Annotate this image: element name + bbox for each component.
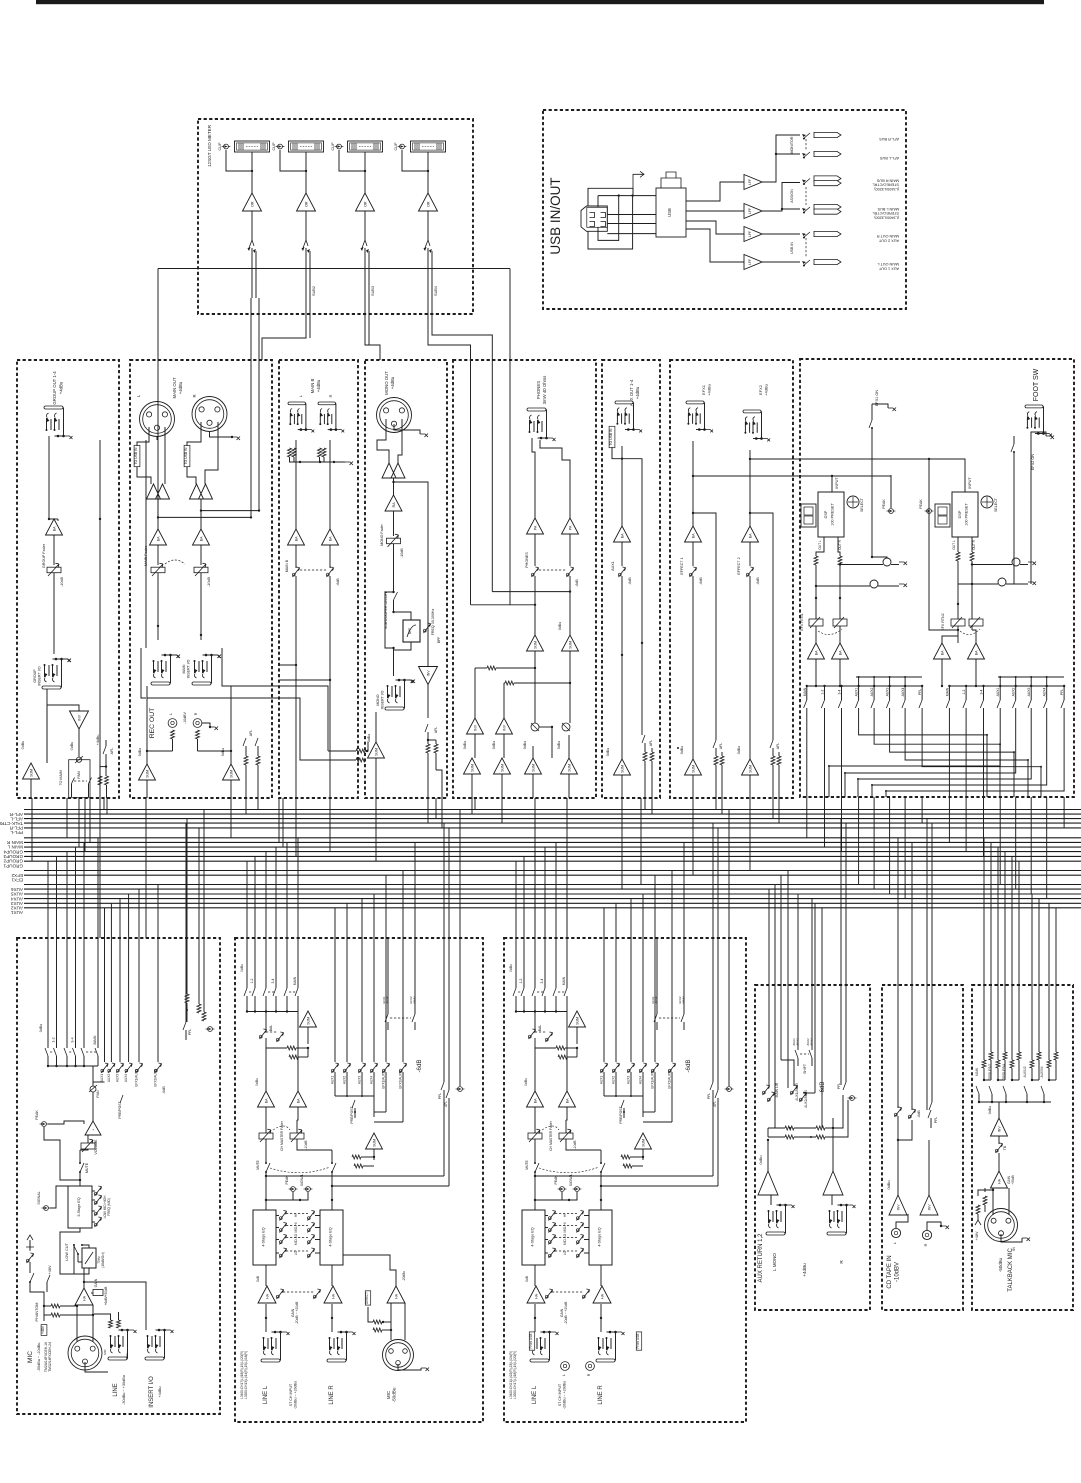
svg-text:GROUP OUT 1-4: GROUP OUT 1-4 — [52, 371, 57, 405]
svg-text:SUM: SUM — [306, 1017, 310, 1025]
svg-text:AUX 2 OUT: AUX 2 OUT — [878, 238, 899, 242]
svg-text:FOOT SW: FOOT SW — [1033, 368, 1040, 401]
svg-text:OR: OR — [304, 201, 308, 207]
svg-text:0dBu: 0dBu — [509, 964, 513, 972]
wire main bus crossover — [201, 510, 259, 512]
resistor sum feed 1 — [556, 1046, 565, 1050]
svg-text:LPF: LPF — [748, 208, 752, 214]
switch SUBWOOFER ON/OFF — [393, 544, 395, 592]
svg-text:PHONES: PHONES — [525, 552, 529, 568]
filter 75Hz HPF — [82, 1248, 96, 1268]
connector AUX OUT jack — [615, 401, 633, 404]
encoder SELECT dsp1 — [847, 496, 859, 508]
svg-text:+48V: +48V — [41, 1325, 45, 1334]
op-amp SUM phones bottom 1 — [464, 758, 481, 774]
svg-text:AUX4: AUX4 — [901, 687, 905, 696]
svg-text:AUX2: AUX2 — [11, 906, 23, 911]
svg-text:INV: INV — [473, 724, 477, 731]
svg-text:PFL-L: PFL-L — [10, 830, 23, 835]
svg-text:100 PRESET: 100 PRESET — [964, 503, 968, 526]
svg-text:MAIN: MAIN — [975, 1067, 979, 1076]
svg-text:SUM: SUM — [531, 764, 535, 772]
svg-text:LPF: LPF — [748, 231, 752, 237]
switch assign AFL-R — [803, 133, 810, 139]
svg-text:AUX3: AUX3 — [116, 1074, 120, 1083]
connector RCA CD L — [891, 1228, 900, 1237]
svg-text:1-2: 1-2 — [250, 978, 254, 983]
svg-text:(18dB/Oct): (18dB/Oct) — [101, 1252, 105, 1267]
terminal MAIN R — [814, 176, 841, 181]
svg-text:0dBu: 0dBu — [240, 964, 244, 972]
svg-text:EFX2/AUX6: EFX2/AUX6 — [154, 1069, 158, 1086]
svg-text:EFX1: EFX1 — [701, 384, 706, 395]
wire efx2 send into dsp2 — [800, 458, 929, 460]
svg-text:MID-HI: MID-HI — [294, 1222, 298, 1232]
op-amp aux return L — [758, 1171, 778, 1195]
connector MAIN INSERT I/O jack L — [151, 682, 170, 685]
wire driver to BA — [393, 478, 395, 495]
bus line AUX2 — [24, 902, 1081, 904]
resistor mono feed 1 — [356, 749, 365, 753]
svg-text:MONITOR: MONITOR — [790, 136, 794, 153]
svg-text:FREQ (MID): FREQ (MID) — [107, 1198, 111, 1216]
svg-text:CLIP: CLIP — [394, 142, 398, 151]
svg-text:TO USB IN: TO USB IN — [609, 428, 613, 445]
filter BPF block — [403, 620, 420, 642]
connector MAIN B jack L — [288, 402, 305, 405]
svg-text:HA: HA — [265, 1293, 269, 1299]
svg-text:LINE: LINE — [125, 1353, 129, 1360]
svg-text:EFX RTN2: EFX RTN2 — [941, 613, 945, 630]
svg-text:-6dB: -6dB — [575, 579, 579, 587]
CLIP LED 2 — [278, 144, 283, 149]
svg-text:USB IN: USB IN — [790, 242, 794, 254]
svg-text:BA: BA — [691, 533, 695, 538]
svg-text:AFL: AFL — [649, 740, 653, 746]
wire efx1 send into dsp1 — [800, 475, 832, 477]
svg-text:BAL: BAL — [269, 1025, 273, 1032]
wire main b feed R — [279, 679, 330, 681]
svg-text:BA: BA — [294, 536, 298, 541]
op-amp HA stereo R — [593, 1286, 611, 1303]
svg-text:+4dBu: +4dBu — [178, 381, 183, 394]
svg-text:INSERT I/O: INSERT I/O — [381, 690, 385, 709]
svg-text:BA: BA — [620, 533, 624, 538]
switch matrix EFX RTN1 assign — [807, 685, 922, 687]
wire bpf out — [394, 642, 412, 650]
equalizer 3-Stage EQ — [68, 1186, 92, 1228]
svg-text:LINE L: LINE L — [532, 1385, 538, 1404]
svg-text:CH MASTER Fader: CH MASTER Fader — [549, 1120, 553, 1151]
svg-text:SUM: SUM — [533, 641, 537, 649]
op-amp RA MONO — [385, 495, 402, 511]
svg-text:BA: BA — [264, 1098, 268, 1103]
svg-text:INV: INV — [426, 670, 430, 677]
svg-text:SUM: SUM — [500, 764, 504, 772]
svg-text:AUX3: AUX3 — [1027, 687, 1031, 696]
switch assign MAIN R — [803, 179, 810, 185]
connector AUX RETURN jack L — [766, 1232, 785, 1235]
wire group bus taps — [99, 440, 101, 798]
pot EFFECT 2 — [749, 542, 751, 566]
switch assign AFL-L — [803, 152, 810, 158]
op-amp PA phones R — [562, 518, 579, 534]
svg-text:-6dB: -6dB — [820, 1082, 826, 1095]
svg-text:AUX2: AUX2 — [612, 1076, 616, 1085]
svg-text:0dBu: 0dBu — [524, 1078, 528, 1086]
bus line AUX4 — [24, 893, 1081, 895]
block outline PHONES — [453, 360, 596, 798]
wire bus risers to bottom row — [47, 861, 49, 938]
svg-text:OUT L: OUT L — [818, 540, 822, 550]
connector RCA R from USB — [586, 1362, 595, 1371]
pot PAN (mono) — [90, 1086, 96, 1092]
svg-text:PEAK: PEAK — [919, 499, 923, 509]
svg-text:HI: HI — [563, 1214, 567, 1217]
connector FOOT SW jack — [1025, 405, 1043, 408]
connector XLR MIC (mono channel) — [68, 1336, 102, 1370]
wire mono AFL branch — [394, 482, 429, 580]
svg-text:BA: BA — [52, 526, 56, 531]
op-amp HA mic stereo — [387, 1286, 405, 1303]
svg-text:MID-HI: MID-HI — [563, 1222, 567, 1232]
terminal OUT R — [814, 231, 841, 236]
svg-text:AFL: AFL — [110, 748, 114, 755]
svg-text:MAIN: MAIN — [945, 687, 949, 696]
LED bar meter 3 — [348, 141, 383, 152]
svg-text:BA: BA — [974, 650, 978, 655]
connector LINE jack (mono channel) — [108, 1357, 127, 1360]
svg-text:MAIN B: MAIN B — [285, 559, 289, 572]
connector RCA CD R — [922, 1230, 931, 1239]
pot EQ MID FREQ — [94, 1201, 97, 1204]
page header black bar — [36, 0, 1044, 4]
bus line AUX5 — [24, 888, 1081, 890]
svg-text:OR: OR — [426, 201, 430, 207]
svg-text:AUX2: AUX2 — [1012, 687, 1016, 696]
terminal OUT L — [814, 259, 841, 264]
svg-text:R: R — [924, 1243, 928, 1246]
svg-text:MAIN: MAIN — [182, 664, 186, 673]
svg-text:TO USB IN: TO USB IN — [134, 447, 138, 464]
wire meter ch4 drop SUB4 — [428, 298, 471, 605]
svg-text:OUT R: OUT R — [972, 539, 976, 550]
DSP1 block DSP 100 PRESET — [818, 492, 844, 537]
pan pot phones R — [562, 723, 570, 731]
svg-text:PAN: PAN — [96, 1090, 100, 1098]
svg-text:AUX2: AUX2 — [870, 687, 874, 696]
op-amp summing + (mono) — [85, 1121, 101, 1135]
equalizer 4-Stage EQ R — [320, 1210, 343, 1265]
svg-text:SUB2: SUB2 — [312, 286, 316, 296]
block outline MONO OUT — [365, 360, 447, 798]
switch assign OUT L — [803, 260, 810, 266]
svg-text:AUX5: AUX5 — [385, 996, 389, 1004]
connector LINE R jack — [327, 1359, 346, 1362]
svg-text:-10dBV: -10dBV — [183, 712, 187, 724]
svg-text:12SGT LED METER: 12SGT LED METER — [207, 124, 212, 167]
svg-text:EFX RTN1: EFX RTN1 — [800, 613, 804, 630]
svg-text:-6dB: -6dB — [917, 1110, 921, 1118]
boxed label +48V — [41, 1325, 47, 1336]
pot gang link (main b) — [300, 569, 326, 571]
svg-text:0dBu: 0dBu — [221, 748, 225, 756]
svg-text:AFL: AFL — [719, 743, 723, 749]
connector XLR MAIN OUT L — [140, 402, 175, 437]
pot BAL — [259, 1035, 262, 1038]
pot MAIN Fader L — [157, 545, 159, 565]
svg-text:L: L — [299, 395, 303, 397]
svg-text:+48V: +48V — [975, 1231, 979, 1240]
op-amp aux return R — [823, 1171, 843, 1195]
svg-text:TB: TB — [1003, 1145, 1007, 1150]
block outline 12SGT LED METER — [198, 119, 473, 314]
svg-text:GROUP4: GROUP4 — [3, 849, 23, 854]
resistor dsp2 out R — [971, 537, 973, 552]
pot EFX RTN2 R — [969, 619, 983, 626]
resistor GAIN (mono) — [91, 1292, 93, 1294]
op-amp BA stereo R — [296, 1120, 298, 1133]
DSP2 block DSP 100 PRESET — [952, 492, 978, 537]
svg-text:PEAK: PEAK — [882, 499, 886, 509]
svg-text:HA: HA — [82, 1295, 86, 1301]
op-amp LPF U1 (USB) — [744, 175, 762, 190]
boxed label TO USB IN (L) — [134, 445, 140, 466]
switch AFL mono — [425, 724, 428, 732]
svg-text:-10dB: -10dB — [400, 548, 404, 558]
op-amp LPF U2 (USB) — [744, 204, 762, 219]
LED PFL aux return — [850, 1096, 855, 1101]
wire main b ground rail — [290, 457, 346, 462]
svg-text:AUX4: AUX4 — [1043, 687, 1047, 696]
block outline AUX OUT 1-4 — [602, 360, 660, 798]
resistor dsp2 out L — [957, 537, 959, 552]
svg-text:-50dBu: -50dBu — [391, 1387, 396, 1402]
svg-text:0dB: 0dB — [256, 1276, 260, 1282]
svg-text:MONO OUT: MONO OUT — [384, 371, 389, 395]
switch matrix EFX RTN2 assign — [949, 685, 1064, 687]
pot AUX1 level — [621, 542, 623, 566]
svg-text:SELECT: SELECT — [860, 497, 864, 512]
op-amp BA stereo R — [565, 1120, 567, 1133]
switch EFX to MAIN L — [656, 938, 658, 1014]
pot AUX sends (mono) — [93, 1081, 105, 1083]
op-amp OR 4 — [419, 193, 438, 211]
switch PFL stereo — [712, 938, 714, 1082]
bus line MAIN R — [24, 837, 1081, 839]
pot CH MASTER Fader R — [559, 1133, 573, 1139]
resistor mic 2 — [373, 1328, 382, 1332]
wire phones jack wires — [532, 438, 535, 518]
svg-text:SUM: SUM — [372, 1139, 376, 1147]
resistor phantom 1 — [51, 1304, 60, 1308]
svg-text:PA: PA — [533, 525, 537, 530]
svg-text:LO: LO — [294, 1250, 298, 1255]
svg-text:BAL: BAL — [538, 1025, 542, 1032]
pot AUX2/AUX4 — [799, 1098, 802, 1101]
wire aux ret mix rails — [768, 1127, 785, 1129]
driver dual amp MONO — [382, 463, 396, 478]
switch matrix talkback — [978, 1094, 980, 1102]
svg-text:0dBu: 0dBu — [737, 746, 741, 754]
svg-text:0dBu: 0dBu — [39, 1024, 43, 1032]
pot EQ HI pair — [548, 1217, 551, 1220]
svg-text:SELECT: SELECT — [994, 497, 998, 512]
wire line R to HA — [600, 1304, 602, 1332]
wire aux return outs — [767, 1140, 769, 1171]
pot CD level R — [908, 1115, 911, 1118]
switch MUTE stereo L — [535, 1163, 539, 1172]
svg-text:BA: BA — [838, 650, 842, 655]
wire meter ch2 drop SUB2 — [262, 298, 306, 360]
pot MONO Fader — [393, 511, 395, 536]
op-amp HA mic preamp — [75, 1288, 93, 1305]
svg-text:SUM: SUM — [620, 765, 624, 773]
resistor talkback feeds — [982, 1060, 986, 1068]
pot PHONES level L — [534, 534, 536, 566]
svg-text:CLIP: CLIP — [218, 142, 222, 151]
wire driver L down — [157, 499, 159, 529]
svg-text:TALK-CTRL: TALK-CTRL — [0, 821, 23, 826]
svg-text:MAIN: MAIN — [681, 997, 685, 1004]
svg-text:EFX2: EFX2 — [758, 384, 763, 395]
wire meter 4 — [427, 152, 429, 171]
bus line GROUP4 — [24, 846, 1081, 848]
pot BAL — [528, 1035, 531, 1038]
svg-text:L MONO: L MONO — [772, 1253, 777, 1271]
wire main insert to sum bus — [146, 686, 148, 751]
op-amp INV phones 2 — [496, 718, 513, 734]
pot BPF freq — [423, 629, 426, 632]
bus line PFL-L — [24, 827, 1081, 829]
svg-text:-10dB: -10dB — [573, 1140, 577, 1150]
svg-text:SUB3: SUB3 — [371, 286, 375, 296]
wire aux pots to pre/post rail — [334, 1072, 336, 1096]
svg-text:0dBu: 0dBu — [557, 741, 561, 749]
wire aux pot to sum — [621, 576, 623, 759]
connector EFX2 jack — [743, 410, 761, 413]
wire faders to insert — [157, 573, 159, 640]
svg-text:-6dB: -6dB — [756, 577, 760, 585]
svg-text:TM32/14FXCEH-24: TM32/14FXCEH-24 — [48, 1342, 52, 1372]
pot PHONES level R — [569, 534, 571, 566]
resistor jack R legs — [318, 448, 322, 457]
ground rec out — [202, 723, 210, 727]
svg-text:EFFECT 2: EFFECT 2 — [737, 557, 741, 574]
svg-text:AUX RETURN 1,2: AUX RETURN 1,2 — [758, 1233, 764, 1283]
op-amp HA stereo L — [258, 1286, 276, 1303]
wires USB connector to controller — [588, 188, 633, 206]
svg-text:SUM: SUM — [374, 748, 378, 756]
svg-text:MIC: MIC — [27, 1351, 34, 1363]
switch AFL main — [243, 738, 246, 746]
svg-text:PRE/POST: PRE/POST — [350, 1106, 354, 1123]
svg-text:1-2: 1-2 — [52, 1037, 56, 1042]
svg-text:3mW 40 Ohms: 3mW 40 Ohms — [542, 376, 547, 405]
svg-text:EFX2/AUX6: EFX2/AUX6 — [399, 1071, 403, 1088]
svg-text:LPF: LPF — [748, 259, 752, 265]
pot MAIN B level R — [329, 545, 331, 568]
svg-text:4-Stage EQ: 4-Stage EQ — [329, 1227, 333, 1246]
svg-text:AUX3: AUX3 — [627, 1076, 631, 1085]
svg-text:SUM: SUM — [568, 641, 572, 649]
svg-text:MAIN R: MAIN R — [6, 840, 23, 845]
wire aux right branch — [622, 459, 642, 643]
connector RCA REC OUT R — [193, 719, 202, 728]
svg-text:MID-LO: MID-LO — [563, 1233, 567, 1245]
svg-text:HA: HA — [600, 1293, 604, 1299]
svg-text:AFL-L: AFL-L — [10, 816, 23, 821]
svg-text:1-2: 1-2 — [519, 978, 523, 983]
svg-text:GROUP3: GROUP3 — [3, 854, 23, 859]
svg-text:EFX1/AUX5: EFX1/AUX5 — [651, 1071, 655, 1088]
svg-text:0dB: 0dB — [525, 1276, 529, 1282]
svg-text:SUM: SUM — [29, 769, 33, 777]
svg-text:From USB: From USB — [529, 1334, 533, 1349]
wire ha to lowcut — [78, 1262, 84, 1280]
svg-text:BA: BA — [748, 533, 752, 538]
svg-text:R: R — [329, 394, 333, 397]
pot gang link rtn1 — [818, 629, 842, 635]
wire controller to LPF amps — [686, 182, 744, 201]
bus line EFX1 — [24, 874, 1081, 876]
svg-text:CLIP: CLIP — [331, 142, 335, 151]
svg-text:OR: OR — [250, 201, 254, 207]
wire insert to sum — [46, 689, 48, 763]
svg-text:+4dBu: +4dBu — [635, 386, 640, 399]
svg-text:(L3400/L3200): (L3400/L3200) — [874, 216, 899, 220]
switch assign row (mono) — [47, 1056, 49, 1066]
svg-text:AUX3: AUX3 — [886, 687, 890, 696]
op-amp SUM phones L — [527, 635, 544, 651]
wire aux chain — [621, 446, 623, 526]
op-amp HA talkback — [991, 1171, 1008, 1188]
svg-text:PA: PA — [568, 525, 572, 530]
svg-text:3-4: 3-4 — [540, 978, 544, 983]
wire efx2 chain — [749, 450, 751, 526]
op-amp INV talkback — [998, 1136, 1000, 1144]
svg-text:PFL: PFL — [438, 1093, 442, 1099]
svg-text:3-4: 3-4 — [271, 978, 275, 983]
svg-text:-10dB: -10dB — [60, 577, 64, 587]
svg-text:0dBu: 0dBu — [759, 1156, 763, 1165]
wire mono xlr to driver — [377, 419, 389, 463]
svg-text:3-4: 3-4 — [838, 689, 842, 694]
bus line AUX6 — [24, 884, 1081, 886]
svg-text:+4dBu: +4dBu — [96, 735, 100, 746]
block outline TALKBACK MIC — [972, 985, 1073, 1310]
wire pan link — [539, 726, 552, 728]
pot AUX row stereo — [334, 938, 336, 1062]
wire effect pots to sums — [692, 576, 694, 759]
switch meter source 1 — [249, 240, 254, 248]
switch link assign — [50, 1051, 54, 1053]
op-amp BA rtn1 R — [839, 626, 841, 643]
svg-text:INPUT: INPUT — [968, 477, 972, 489]
svg-text:HA: HA — [394, 1293, 398, 1299]
wire talkback mic to ha — [992, 1188, 994, 1215]
resistor LINE pad 2 — [117, 1320, 121, 1328]
svg-text:PHONES: PHONES — [536, 381, 541, 399]
wire mic ha out — [332, 1255, 396, 1286]
svg-text:MAIN: MAIN — [93, 1035, 97, 1044]
wires matrix1 drops AUX group staircase — [859, 714, 987, 797]
svg-text:4-Stage EQ: 4-Stage EQ — [262, 1227, 266, 1246]
svg-text:AFL: AFL — [249, 730, 253, 736]
USB connector J-USB — [581, 206, 607, 231]
svg-text:+6dB/+50dB: +6dB/+50dB — [104, 1286, 108, 1306]
svg-text:AUX4: AUX4 — [639, 1076, 643, 1085]
